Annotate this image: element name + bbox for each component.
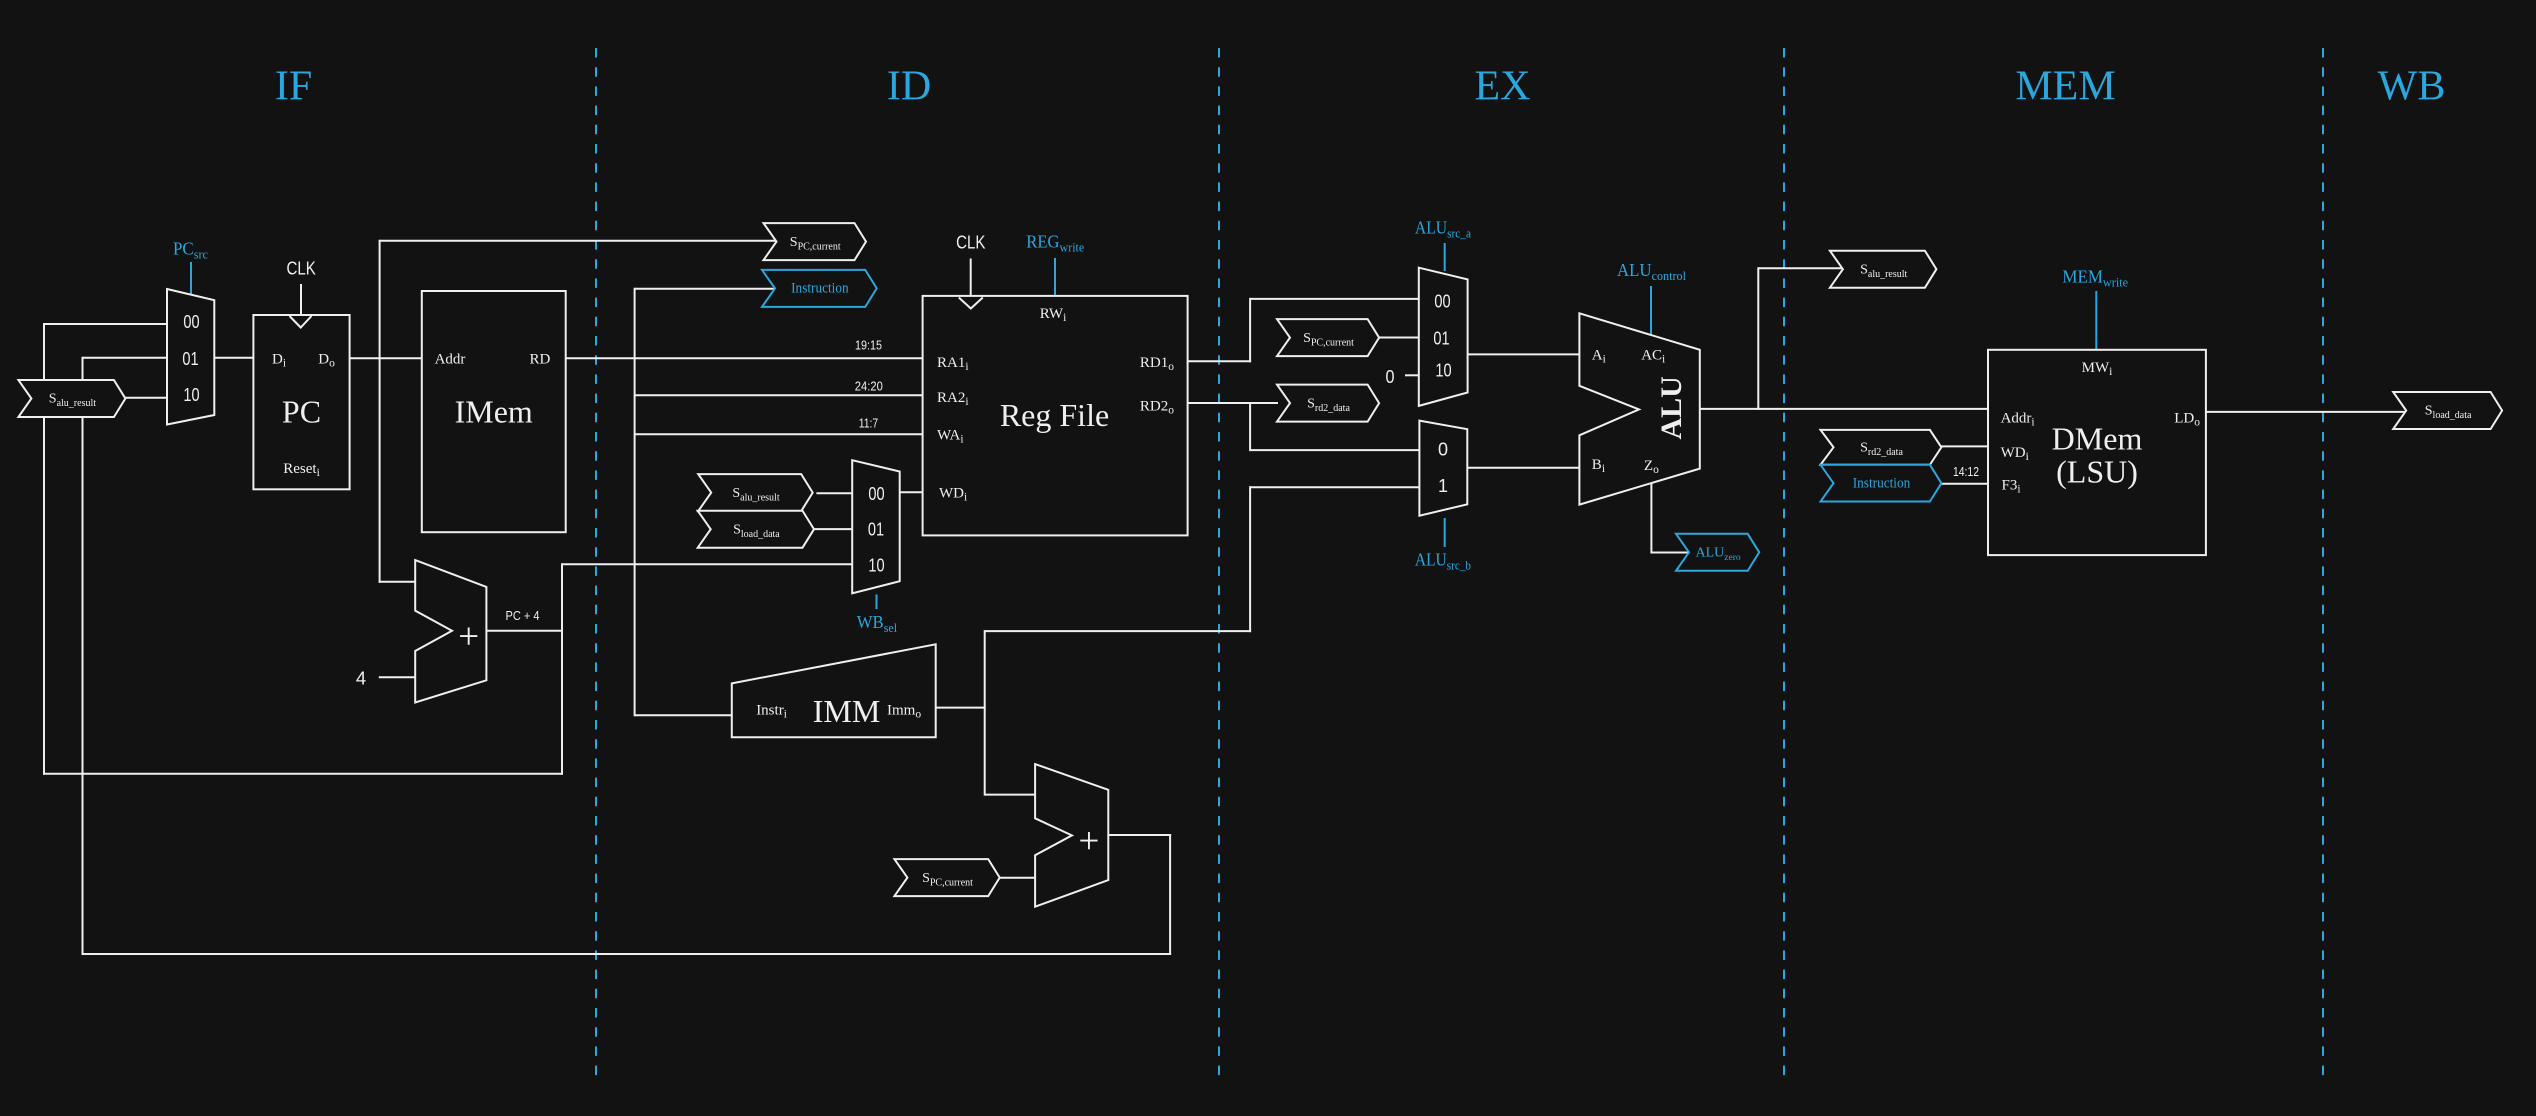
wire branch target into PCsrc mux input 01 (83, 357, 169, 359)
wire instruction bus vertical (634, 288, 636, 717)
svg-text:+: + (458, 617, 479, 658)
wire Sload_data tag to WBsel mux input 01 (814, 528, 853, 530)
svg-text:Reg File: Reg File (1000, 397, 1109, 433)
wire feedback vertical left (43, 323, 45, 775)
svg-text:RD: RD (529, 352, 550, 368)
control line ALUsrc_a (1444, 243, 1446, 271)
svg-text:PC + 4: PC + 4 (506, 608, 540, 623)
svg-text:DMem: DMem (2052, 421, 2143, 457)
wire immediate to ALUsrc_b mux input 1 (1250, 486, 1420, 488)
wire Do junction vertical up (379, 240, 381, 359)
net tag S_rd2_data (EX) (1277, 385, 1379, 422)
wire IMM Imm output (936, 707, 986, 709)
wire ALU Z output vertical (1650, 483, 1652, 553)
control line MEMwrite (2095, 291, 2097, 351)
wire ALUsrc_b mux output to ALU B (1467, 467, 1580, 469)
svg-text:+: + (1078, 821, 1099, 862)
wire PC+4 feedback into PCsrc mux input 00 (44, 323, 168, 325)
wire RD1 to ALUsrc_a mux input 00 (1250, 298, 1420, 300)
svg-text:00: 00 (868, 484, 884, 504)
wire RD1 vertical (1249, 298, 1251, 362)
svg-text:WB: WB (2378, 64, 2446, 110)
svg-text:Instruction: Instruction (1853, 475, 1911, 491)
wire PC+4 vertical (561, 563, 563, 774)
net tag S_PC,current (EX) (1277, 319, 1379, 356)
net tag S_alu_result (MEM) (1830, 251, 1937, 288)
svg-text:19:15: 19:15 (855, 337, 882, 352)
wire RegFile RD2 output to Srd2_data tag (1188, 402, 1278, 404)
wire feedback horizontal PC+4 (43, 773, 563, 775)
wire Do junction vertical down to adder (379, 358, 381, 583)
wire constant 4 into IF adder lower input (379, 676, 416, 678)
net tag S_load_data (WB) (2393, 392, 2502, 429)
svg-text:01: 01 (868, 519, 884, 539)
mux ALUsrc_b (1419, 421, 1467, 516)
svg-text:ID: ID (887, 64, 931, 110)
wire immediate into branch adder upper input (985, 794, 1036, 796)
wire SPC_current tag to ALUsrc_a mux input 01 (1379, 337, 1420, 339)
wire ALU result to DMem Addr (1700, 408, 1989, 410)
memory IMem (422, 291, 566, 532)
svg-text:MEM: MEM (2015, 64, 2115, 110)
svg-text:IF: IF (275, 64, 312, 110)
svg-text:EX: EX (1475, 64, 1531, 110)
control line WBsel (876, 595, 878, 610)
adder branch target (1035, 764, 1108, 907)
stage divider EX/MEM (1783, 48, 1785, 1076)
svg-text:ACi: ACi (1641, 348, 1665, 366)
svg-text:WDi: WDi (939, 486, 967, 504)
wire into IF adder upper input (379, 581, 417, 583)
wire ALU result junction vertical (1757, 267, 1759, 410)
wire Srd2_data tag to DMem WD (1941, 445, 1989, 447)
wire ALUsrc_a mux output to ALU A (1468, 353, 1581, 355)
svg-text:CLK: CLK (287, 259, 316, 279)
wire DMem LD output to Sload_data tag (2206, 411, 2407, 413)
stage divider IF/ID (595, 48, 597, 1076)
svg-text:RA2i: RA2i (937, 390, 969, 408)
control line ALUsrc_b (1444, 518, 1446, 547)
mux WBsel (852, 460, 900, 593)
wire instruction bits to RegFile RA2 (635, 394, 924, 396)
control line ALUcontrol (1650, 286, 1652, 335)
wire constant 0 to ALUsrc_a mux input 10 (1405, 374, 1420, 376)
wire PC current to SPC_current tag (380, 240, 777, 242)
wire to ALUzero tag (1651, 552, 1689, 554)
svg-text:Addri: Addri (2001, 411, 2035, 429)
wire branch feedback vertical left (82, 357, 84, 955)
wire CLK to RegFile (970, 259, 972, 297)
svg-text:00: 00 (183, 312, 199, 332)
svg-text:Reseti: Reseti (283, 461, 320, 479)
wire Instruction tag to DMem F3 (1941, 483, 1989, 485)
wire PC+4 to WBsel mux input 10 (562, 563, 853, 565)
svg-text:1: 1 (1438, 476, 1448, 496)
svg-text:PC: PC (282, 394, 321, 430)
wire RD2 to ALUsrc_b mux input 0 (1250, 449, 1420, 451)
wire WBsel mux output to RegFile WD (900, 491, 924, 493)
wire IF adder output PC+4 (486, 630, 563, 632)
wire branch feedback long horizontal (82, 953, 1172, 955)
control line REGwrite (1054, 258, 1056, 297)
net tag S_rd2_data (MEM) (1821, 430, 1942, 465)
register PC (253, 315, 349, 489)
svg-text:Instri: Instri (756, 703, 787, 721)
wire Salu_result tag to PCsrc mux input 10 (126, 397, 169, 399)
stage divider MEM/WB (2322, 48, 2324, 1076)
net tag S_PC,current (ID bottom) (894, 859, 999, 896)
svg-text:0: 0 (1386, 366, 1395, 387)
svg-text:ALU: ALU (1655, 376, 1688, 439)
adder PC+4 (415, 560, 486, 702)
wire CLK to PC (300, 284, 302, 316)
svg-text:10: 10 (183, 385, 199, 405)
wire branch adder output vertical (1169, 834, 1171, 955)
svg-text:WAi: WAi (937, 428, 964, 446)
net tag ALU_zero (EX) (1676, 534, 1759, 571)
svg-text:RA1i: RA1i (937, 355, 969, 373)
svg-text:WDi: WDi (2001, 445, 2029, 463)
wire PCsrc mux output to PC Di (214, 357, 254, 359)
Reg File clock notch (959, 298, 983, 309)
wire instruction bits to RegFile WA (635, 433, 924, 435)
svg-text:RWi: RWi (1040, 306, 1067, 324)
svg-text:24:20: 24:20 (855, 379, 883, 394)
wire IMem RD instruction bus to RegFile RA1 (566, 357, 924, 359)
net tag Instruction (MEM) (1821, 465, 1942, 502)
wire ALU result to Salu_result tag (1758, 267, 1843, 269)
svg-text:10: 10 (1435, 361, 1451, 381)
alu ALU (1579, 313, 1699, 504)
svg-text:01: 01 (182, 349, 198, 369)
mux PCsrc (167, 289, 214, 425)
svg-text:IMem: IMem (455, 394, 533, 430)
wire branch adder output (1108, 834, 1171, 836)
wire RD2 junction vertical (1249, 403, 1251, 451)
mux ALUsrc_a (1419, 268, 1468, 406)
svg-text:11:7: 11:7 (859, 415, 879, 430)
memory DMem (LSU) (1988, 350, 2206, 555)
wire immediate to EX stage (985, 630, 1251, 632)
svg-text:4: 4 (356, 668, 366, 689)
wire SPC_current tag into branch adder lower input (1000, 877, 1036, 879)
svg-text:Instruction: Instruction (791, 281, 849, 297)
wire immediate junction vertical (984, 630, 986, 796)
svg-text:10: 10 (868, 555, 884, 575)
svg-text:Addr: Addr (435, 352, 466, 368)
svg-text:00: 00 (1434, 292, 1450, 312)
net tag S_load_data (ID) (698, 511, 814, 548)
svg-text:14:12: 14:12 (1953, 464, 1979, 479)
register file Reg File (923, 296, 1188, 536)
PC clock notch (290, 316, 312, 328)
wire to Instruction tag (635, 288, 777, 290)
svg-text:IMM: IMM (813, 693, 881, 729)
wire PC Do to IMem Addr (350, 357, 423, 359)
svg-text:01: 01 (1433, 328, 1449, 348)
immediate generator IMM (732, 644, 936, 737)
wire Salu_result tag to WBsel mux input 00 (816, 492, 853, 494)
svg-text:CLK: CLK (956, 233, 985, 253)
wire immediate vertical EX (1249, 486, 1251, 632)
svg-text:MWi: MWi (2082, 360, 2113, 378)
wire RegFile RD1 output (1188, 360, 1252, 362)
wire instruction to IMM Instr input (635, 714, 733, 716)
net tag Instruction (ID) (762, 270, 877, 307)
svg-text:(LSU): (LSU) (2056, 454, 2138, 490)
net tag S_alu_result (IF) (18, 380, 125, 417)
net tag S_alu_result (ID) (698, 474, 813, 511)
stage divider ID/EX (1218, 48, 1220, 1076)
control line PCsrc (190, 262, 192, 296)
net tag S_PC,current (ID top) (764, 223, 867, 260)
svg-text:0: 0 (1438, 439, 1448, 459)
